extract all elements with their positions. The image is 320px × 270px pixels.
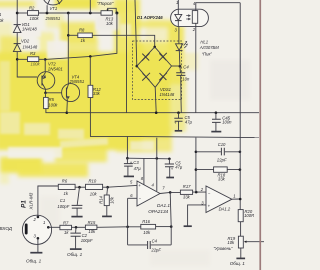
wire long vertical x126.5 from top — [126, 0, 128, 113]
capacitor C4 10n plates — [176, 73, 185, 76]
wire DA1.1 pin4 — [156, 158, 158, 191]
svg-text:100n: 100n — [222, 120, 232, 125]
capacitor C1 100pF — [72, 187, 83, 216]
potentiometer R13 — [101, 8, 116, 15]
svg-text:R7: R7 — [63, 220, 69, 225]
node R18 left junction — [195, 168, 198, 171]
wire R12 bottom to rail y137 — [90, 98, 127, 137]
svg-text:100R: 100R — [244, 213, 254, 218]
node x90 top junction — [89, 12, 92, 15]
svg-text:R8: R8 — [79, 28, 85, 33]
wire C4 feedback row — [128, 244, 172, 246]
TEXT-LAYER — [0, 0, 254, 266]
svg-text:1: 1 — [176, 0, 178, 5]
ground DA1.2 pin3 — [184, 225, 192, 227]
capacitor C4 10n leads — [180, 66, 181, 113]
capacitor C10 22pF — [221, 148, 224, 156]
wire right vertical x240 from top wire down — [239, 3, 241, 210]
svg-text:47µ: 47µ — [185, 119, 193, 124]
wire pin6 vertical x127.6 — [127, 198, 129, 245]
diode VD2 — [13, 44, 21, 52]
LED HL1 — [176, 41, 189, 51]
connector P1 XLR — [22, 215, 51, 244]
svg-text:100pF: 100pF — [57, 204, 69, 209]
resistor R3 — [28, 57, 39, 62]
svg-text:R17: R17 — [183, 184, 191, 189]
node C1 junction — [78, 186, 81, 189]
wire P1 pin3 down — [37, 238, 39, 252]
ground R19 — [236, 257, 245, 259]
svg-text:XLR-M3: XLR-M3 — [29, 192, 34, 210]
wire opto pin3 down — [178, 27, 180, 44]
svg-text:R3: R3 — [30, 51, 36, 56]
diode D1 LED inside opto — [175, 9, 182, 26]
svg-text:22pF: 22pF — [150, 247, 161, 252]
wire bridge edge top-left — [137, 47, 155, 66]
svg-text:Общ. 1: Общ. 1 — [230, 261, 246, 266]
wire R5 top lead — [45, 93, 47, 98]
svg-text:D1 АОРУ246: D1 АОРУ246 — [137, 15, 163, 20]
svg-text:C4: C4 — [183, 64, 189, 69]
opto internal arrows — [186, 16, 188, 19]
svg-text:ВХОД: ВХОД — [0, 226, 13, 231]
svg-text:R15: R15 — [88, 220, 96, 225]
svg-text:100k: 100k — [48, 103, 58, 108]
svg-text:DA1.2: DA1.2 — [219, 206, 231, 211]
node HL1 bottom junction — [179, 65, 182, 68]
ground C3 — [124, 175, 134, 177]
wire DA1.2 output — [232, 198, 240, 200]
svg-text:100k: 100k — [30, 16, 40, 21]
svg-text:10k: 10k — [88, 229, 96, 234]
wire drop x156.8 rail to y158 — [156, 138, 158, 159]
capacitor C5 47u upper — [174, 113, 183, 131]
op-amp U3 DA1.2 — [206, 186, 232, 213]
svg-text:C4: C4 — [152, 239, 158, 244]
svg-text:VT1: VT1 — [50, 6, 58, 11]
YELLOW-LAYER — [0, 0, 198, 184]
svg-text:10k: 10k — [106, 21, 114, 26]
node C6 junction — [168, 158, 171, 161]
node bridge top — [153, 46, 156, 49]
wire R12 top lead — [89, 56, 91, 85]
svg-text:1: 1 — [43, 220, 45, 225]
svg-text:OPA2134: OPA2134 — [148, 209, 168, 214]
wire left rail x17 top — [16, 0, 18, 24]
wire HL1 to node — [178, 51, 181, 67]
op-amp U2 DA1.1 — [137, 181, 160, 206]
wire output vertical x171.2 — [170, 192, 171, 245]
svg-text:C10: C10 — [218, 142, 226, 147]
svg-text:C1: C1 — [60, 198, 65, 203]
ground R14 — [102, 215, 112, 217]
wire DA1.2 pin3 to ground — [188, 205, 206, 226]
capacitor C6 47u lower — [165, 159, 174, 177]
wire R13 node down and left to VT2 collector node — [45, 13, 117, 59]
resistor R8 — [78, 33, 93, 38]
svg-text:2N5551: 2N5551 — [45, 16, 61, 21]
svg-text:1: 1 — [0, 12, 1, 17]
wire left rail x17 between diodes — [16, 33, 18, 44]
node R18 right junction — [239, 168, 242, 171]
INK-LAYER — [13, 0, 264, 258]
transistor VT4 — [62, 84, 80, 102]
svg-text:“Порог”: “Порог” — [97, 1, 114, 6]
ground C5 upper — [175, 130, 183, 132]
svg-text:47µ: 47µ — [175, 165, 183, 170]
WHITE-HOLES — [0, 13, 200, 158]
wire bridge edge bottom-right — [155, 66, 171, 87]
wire R3 leads — [17, 58, 45, 60]
svg-text:АЛ307БМ: АЛ307БМ — [199, 45, 219, 50]
node bridge bottom bus junction — [155, 111, 158, 114]
svg-text:1: 1 — [233, 193, 235, 198]
wire R16 right to output vertical — [156, 226, 172, 228]
wire vertical x136 from top to bridge left — [135, 0, 137, 66]
svg-text:10k: 10k — [90, 191, 98, 196]
svg-text:R14: R14 — [98, 195, 103, 203]
node R16 right junction — [170, 225, 173, 228]
node R3 left junction — [16, 58, 19, 61]
node R13 right junction — [115, 12, 118, 15]
wire bridge edge bottom-left — [137, 66, 155, 87]
node R17 right junction — [195, 191, 198, 194]
node x68 rail top junction — [67, 12, 70, 15]
svg-text:R6: R6 — [62, 179, 68, 184]
wire DA1.1 pin5 input — [108, 185, 137, 187]
svg-text:47µ: 47µ — [134, 166, 142, 171]
node C46 bus junction — [215, 111, 218, 114]
svg-text:33k: 33k — [218, 176, 226, 181]
resistor R6 — [58, 184, 75, 189]
node VT2 emitter junction — [44, 92, 47, 95]
wire bridge right to HL1 node — [172, 65, 180, 67]
wire VT2 emitter to VT4 base — [46, 92, 62, 94]
wire DA1.1 pin6 input — [128, 197, 137, 199]
wire drop x127.4 to C3 node — [126, 136, 128, 158]
ground C2 — [70, 248, 82, 250]
svg-text:33k: 33k — [183, 194, 191, 199]
svg-text:R10: R10 — [89, 178, 97, 183]
wire left rail x17 below VD2 to VT2 base — [17, 52, 37, 77]
wire feedback left vertical x196 — [195, 138, 197, 193]
node DA1.2 output junction — [239, 198, 242, 201]
node C2 junction — [75, 226, 78, 229]
wire bus y112.7 — [67, 112, 259, 114]
wire R8 left lead — [68, 34, 78, 36]
svg-text:1N4148: 1N4148 — [160, 92, 175, 97]
node VT1 emitter junction — [46, 12, 49, 15]
wire C10 row — [196, 151, 240, 153]
node R10 right junction — [106, 186, 109, 189]
node x90-y56 junction — [89, 55, 92, 58]
svg-text:100pF: 100pF — [81, 238, 93, 243]
capacitor C3 47u — [124, 158, 133, 176]
wire x68 rail down to VT4 collector — [67, 13, 69, 84]
node DA1.1 output junction — [169, 191, 172, 194]
resistor R10 — [86, 184, 103, 189]
svg-text:10k: 10k — [227, 240, 235, 245]
ground C1 — [71, 216, 82, 218]
ground C46 — [211, 131, 221, 133]
svg-text:HL1: HL1 — [200, 39, 208, 44]
svg-text:100k: 100k — [31, 62, 41, 67]
node R8 left junction — [67, 34, 70, 37]
wire P1 pin1 to R7 — [48, 226, 60, 228]
wire P1 pin2 up to R6 — [38, 186, 58, 217]
capacitor C4 22pF — [148, 241, 151, 249]
svg-text:10k: 10k — [109, 196, 114, 204]
node C10 left junction — [195, 151, 198, 154]
potentiometer R19 — [238, 236, 264, 248]
wire R20 to R19 — [240, 222, 242, 237]
svg-text:VD2: VD2 — [21, 39, 30, 44]
wire opto pin4 to top wire — [196, 3, 240, 11]
wire R7 to R15 — [72, 226, 86, 228]
ground P1 — [30, 252, 42, 254]
right page edge line — [259, 0, 261, 270]
transistor VT2 — [37, 72, 55, 90]
wire R14 bottom — [106, 206, 108, 216]
wire rail y137 — [127, 136, 259, 137]
scan blotches — [40, 16, 250, 266]
svg-text:“Пик”: “Пик” — [202, 51, 213, 56]
diode bridge VDS1 dashed box — [133, 41, 182, 100]
wire DA1.1 output to R17 — [160, 192, 170, 193]
resistor R7 — [60, 225, 72, 229]
wire VT2 emitter to node — [45, 89, 47, 93]
optocoupler U1 D1 AORU246 body — [171, 9, 209, 26]
ground C6 — [166, 177, 174, 179]
svg-text:DA1.1: DA1.1 — [157, 203, 170, 208]
transistor VT1 (circle cut at top edge) — [44, 0, 62, 13]
node C10 right junction — [239, 151, 242, 154]
resistor R2 — [28, 11, 39, 16]
svg-text:P1: P1 — [21, 200, 28, 208]
wire bridge bottom to bus — [155, 87, 156, 112]
wire R14 top lead — [106, 187, 109, 195]
node VT4 emitter bus junction — [66, 111, 69, 114]
diode VD1 — [13, 25, 21, 33]
svg-text:R5: R5 — [49, 97, 55, 102]
svg-text:2N5551: 2N5551 — [69, 79, 85, 84]
node R15-R16 junction — [126, 226, 129, 229]
wire DA1.1 pin8 — [143, 158, 145, 185]
svg-text:1N4148: 1N4148 — [23, 45, 38, 50]
svg-text:1N4148: 1N4148 — [22, 27, 37, 32]
wire top rail y13 — [17, 12, 27, 14]
wire R17 leads — [170, 191, 206, 193]
wire R6 to R10 — [75, 186, 85, 188]
resistor R20 — [238, 210, 243, 222]
wire R5 bottom to bus — [46, 109, 67, 113]
svg-text:R16: R16 — [142, 219, 150, 224]
wire x90 from top edge — [89, 0, 91, 13]
resistor R16 — [141, 224, 156, 229]
svg-text:R2: R2 — [29, 6, 35, 11]
resistor R18 — [214, 167, 228, 172]
svg-text:“Уровень”: “Уровень” — [214, 246, 234, 251]
resistor R17 — [180, 190, 192, 194]
capacitor C2 100pF — [70, 227, 81, 248]
wire R10 right — [103, 186, 108, 188]
wire R19 bottom — [240, 248, 242, 258]
node VD1-R2 junction — [16, 12, 19, 15]
wire VT4 emitter to bus node — [66, 101, 69, 112]
svg-text:+ C3: + C3 — [130, 160, 140, 165]
resistor R5 — [44, 97, 49, 108]
wire R15 right to node — [97, 226, 141, 229]
resistor R15 — [85, 225, 97, 229]
svg-text:Общ. 1: Общ. 1 — [26, 258, 42, 263]
wire opto pin1 from top edge — [177, 0, 179, 9]
node VT2 collector junction — [44, 58, 47, 61]
node C5 bus junction — [177, 111, 180, 114]
diode VDS1.2 — [159, 53, 167, 61]
wire R8 right to bridge top — [92, 35, 154, 47]
node bridge left — [136, 65, 139, 68]
diode VDS1.4 — [159, 73, 167, 81]
resistor R14 — [104, 195, 109, 206]
svg-text:33k: 33k — [93, 91, 101, 96]
wire opto pin2 down to bus — [195, 23, 197, 112]
photoresistor inside opto — [192, 11, 197, 24]
wire R2 to VT1 node — [39, 12, 102, 14]
svg-text:10n: 10n — [182, 77, 190, 82]
node pin4 drop junction — [156, 157, 159, 160]
wire bridge edge top-right — [155, 47, 172, 66]
capacitor C46 100n — [212, 113, 221, 131]
svg-text:22pF: 22pF — [216, 157, 227, 162]
node C3 junction — [126, 157, 129, 160]
wire R18 row leads — [196, 169, 240, 171]
wire VT2 collector lead — [44, 59, 46, 72]
diode VDS1.1 — [142, 53, 150, 61]
diode VDS1.3 — [142, 73, 150, 81]
resistor R12 — [88, 85, 93, 97]
wire y158 line — [127, 157, 169, 160]
svg-text:Общ. 1: Общ. 1 — [67, 252, 83, 257]
svg-text:10k: 10k — [143, 230, 151, 235]
svg-text:2N5401: 2N5401 — [47, 67, 63, 72]
